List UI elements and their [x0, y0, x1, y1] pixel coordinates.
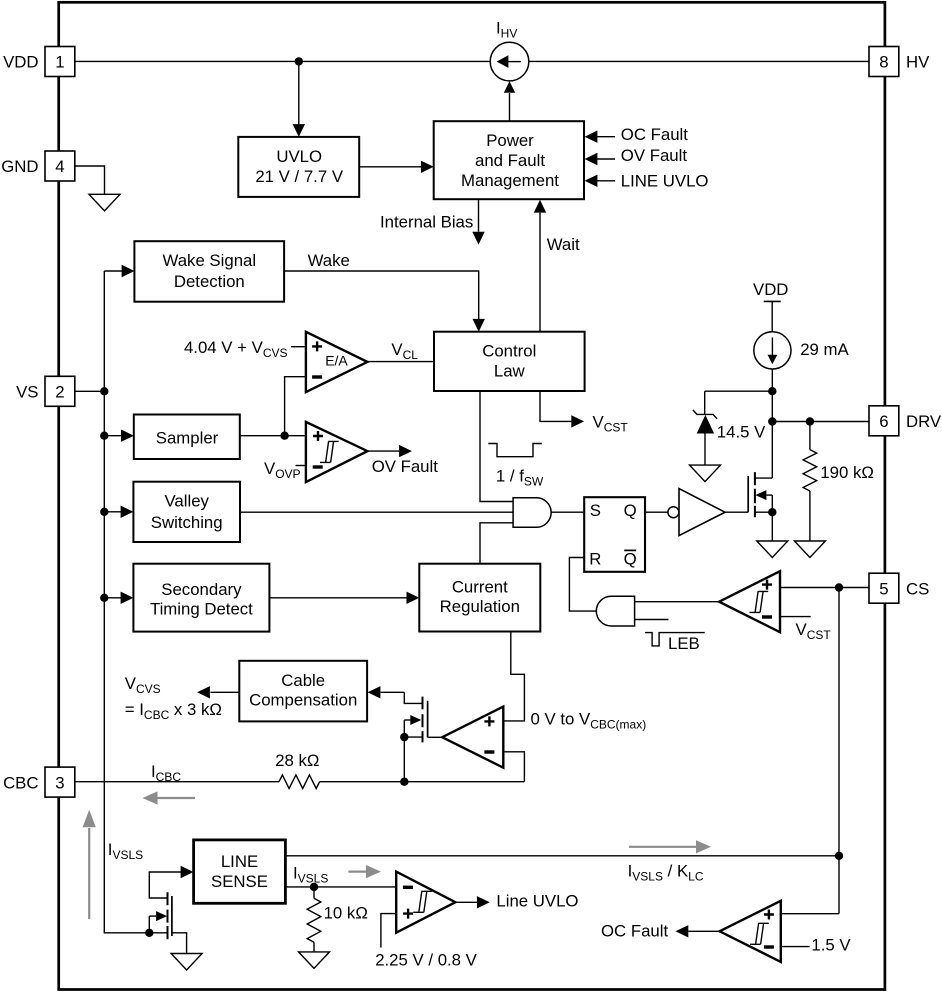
junction 190k branch — [806, 417, 814, 425]
latch U3 SR flip-flop — [584, 497, 645, 572]
wire LINE SENSE bottom output — [285, 886, 396, 888]
wire Sampler output to OVP comparator — [240, 435, 306, 437]
wire VDD rail down to UVLO — [298, 61, 300, 124]
svg-text:and Fault: and Fault — [475, 151, 545, 170]
op-amp U1 E/A — [306, 332, 368, 392]
wire AND gate to latch S input — [551, 511, 584, 513]
wire Q3 gate to ground — [172, 933, 187, 954]
wire Internal Bias output — [478, 199, 480, 232]
AND gate G1 — [513, 498, 551, 528]
wire LINE SENSE top output IVSLS/KLC net — [285, 855, 839, 857]
wire Valley Switching to AND gate — [240, 511, 513, 513]
wire VDD rail to 29 mA source — [771, 301, 773, 332]
wire Power Management to IHV — [509, 93, 511, 121]
wire 2.25 V / 0.8 V reference stub — [381, 914, 396, 948]
wire Q1 source to ground — [771, 495, 773, 541]
wire OC Fault input stub — [585, 131, 615, 143]
svg-text:2: 2 — [55, 383, 64, 402]
junction VS pin / bus — [100, 387, 108, 395]
svg-text:Q: Q — [624, 549, 637, 568]
wire bus to Secondary Timing Detect — [104, 592, 133, 604]
pin 1 VDD — [45, 47, 75, 77]
wire CS comparator output to AND gate — [635, 601, 720, 603]
wire 1.5 V reference stub — [781, 946, 810, 948]
pin 4 GND — [45, 151, 75, 181]
svg-text:Management: Management — [461, 171, 559, 190]
svg-text:Cable: Cable — [281, 671, 325, 690]
svg-text:6: 6 — [879, 412, 888, 431]
comparator U7 line UVLO — [396, 872, 455, 933]
svg-text:190 kΩ: 190 kΩ — [820, 463, 874, 482]
ground symbol at 190k — [794, 541, 825, 558]
svg-text:LINE: LINE — [221, 852, 258, 871]
block Cable Compensation — [239, 661, 367, 722]
wire Q2 gate to amp output — [428, 736, 443, 738]
diode D1 zener 14.5 V — [693, 410, 717, 465]
comparator U8 overcurrent — [720, 901, 781, 962]
wire Q1 drain to DRV node — [771, 422, 773, 479]
AND gate G2 LEB — [596, 596, 634, 626]
svg-text:Wake: Wake — [308, 251, 350, 270]
svg-text:VDD: VDD — [753, 280, 788, 299]
junction Q2 source — [400, 733, 408, 741]
svg-text:VDD: VDD — [3, 53, 38, 72]
block Control Law — [434, 332, 585, 391]
transistor Q3 line sense MOSFET — [149, 866, 193, 939]
svg-text:4.04 V + VCVS: 4.04 V + VCVS — [184, 338, 288, 360]
block Sampler — [134, 415, 240, 460]
junction CBC line / Q2 source — [400, 778, 408, 786]
wire DRV node to zener — [705, 391, 773, 414]
wire AND gate to latch R input — [569, 558, 596, 612]
svg-text:1 / fSW: 1 / fSW — [496, 466, 544, 488]
svg-text:5: 5 — [879, 579, 888, 598]
svg-text:Detection: Detection — [174, 272, 245, 291]
svg-text:OC Fault: OC Fault — [621, 125, 688, 144]
junction 10k branch — [310, 883, 318, 891]
wire Wait from Control Law to Power Management — [539, 213, 541, 332]
wire Line UVLO output — [455, 901, 477, 903]
wire CS node down to line sense net — [838, 588, 840, 914]
current direction arrow IVSLS right — [348, 865, 381, 878]
svg-text:S: S — [590, 501, 601, 520]
wire OVP output OV Fault — [367, 450, 399, 452]
wire Q2 drain to Cable Compensation — [381, 691, 405, 693]
block Secondary Timing Detect — [133, 564, 269, 632]
svg-text:Control: Control — [482, 342, 536, 361]
transistor Q2 cable compensation MOSFET — [404, 692, 427, 781]
svg-text:DRV: DRV — [906, 412, 942, 431]
svg-text:8: 8 — [879, 53, 888, 72]
wire VCST reference stub — [780, 616, 811, 618]
svg-text:VCVS: VCVS — [125, 674, 161, 696]
svg-text:Q: Q — [624, 501, 637, 520]
pin 6 DRV — [869, 406, 899, 436]
svg-text:OV Fault: OV Fault — [621, 146, 688, 165]
resistor R3 10 kOhm — [307, 887, 321, 952]
svg-text:CS: CS — [906, 579, 929, 598]
svg-text:Line UVLO: Line UVLO — [496, 892, 578, 911]
wire IHV current source to HV pin8 — [529, 60, 869, 62]
svg-text:VOVP: VOVP — [264, 459, 301, 481]
wire latch Q output to driver — [645, 511, 668, 513]
wire LINE UVLO input stub — [585, 175, 615, 187]
junction Q1 source — [768, 508, 776, 516]
svg-text:0 V to VCBC(max): 0 V to VCBC(max) — [531, 710, 647, 732]
junction DRV node — [768, 417, 776, 425]
wire UVLO to Power Management — [359, 166, 421, 168]
resistor R1 190 kOhm — [803, 422, 817, 542]
svg-text:1: 1 — [55, 53, 64, 72]
current source IHV — [490, 42, 529, 81]
svg-text:UVLO: UVLO — [276, 147, 322, 166]
comparator U5 current sense — [719, 571, 780, 632]
junction bus / Secondary Timing branch — [100, 594, 108, 602]
svg-text:Wait: Wait — [547, 235, 580, 254]
current direction arrow IVSLS up — [83, 810, 96, 919]
wire Wake to Control Law — [284, 271, 479, 319]
resistor R2 28 kOhm — [279, 775, 320, 789]
svg-text:29 mA: 29 mA — [800, 340, 849, 359]
wire CS pin to comparator — [780, 587, 869, 589]
waveform symbol 1/fSW pulse — [488, 444, 542, 457]
wire LEB stub input — [635, 619, 669, 621]
wire VS vertical bus — [104, 271, 167, 933]
VDD rail tick — [764, 300, 781, 302]
junction bus / Sampler branch — [100, 432, 108, 440]
current direction arrow ICBC — [143, 791, 196, 804]
wire E/A noninverting input stub — [291, 346, 306, 348]
ground symbol at Q3 gate — [171, 954, 202, 971]
ground symbol at Q1 source — [757, 541, 788, 558]
svg-text:ICBC: ICBC — [151, 762, 181, 784]
svg-text:21 V / 7.7 V: 21 V / 7.7 V — [255, 167, 343, 186]
wire GND pin to ground — [75, 166, 105, 194]
svg-text:E/A: E/A — [325, 352, 348, 368]
wire VOVP inverting input stub — [296, 465, 306, 467]
svg-text:HV: HV — [906, 53, 930, 72]
ground symbol at GND pin — [89, 194, 120, 211]
wire IVSLS/KLC node to OC comparator — [781, 913, 839, 915]
transistor Q1 driver MOSFET — [748, 472, 772, 517]
pin 3 CBC — [45, 767, 75, 797]
wire resistor to amp inverting node — [320, 781, 525, 783]
wire OV Fault input stub — [585, 153, 615, 165]
svg-text:28 kΩ: 28 kΩ — [275, 751, 319, 770]
wire amp inverting input to CBC line — [503, 752, 524, 782]
svg-text:VS: VS — [16, 383, 38, 402]
junction zener branch — [768, 387, 776, 395]
comparator U2 OVP — [306, 422, 368, 482]
junction sampler node / E/A feedback — [280, 432, 288, 440]
wire Current Regulation to AND gate bottom input — [480, 523, 513, 564]
svg-text:Valley: Valley — [164, 492, 209, 511]
waveform symbol LEB pulse — [645, 633, 705, 646]
svg-text:R: R — [589, 549, 601, 568]
svg-text:14.5 V: 14.5 V — [717, 422, 766, 441]
svg-text:GND: GND — [1, 157, 38, 176]
current source I2 29 mA — [754, 332, 791, 369]
wire OC Fault output — [688, 930, 719, 932]
wire Current Regulation to comparator input — [503, 632, 524, 721]
ground symbol at zener — [690, 465, 721, 482]
block LINE SENSE — [194, 840, 286, 903]
svg-text:Regulation: Regulation — [440, 597, 520, 616]
svg-text:VCL: VCL — [391, 340, 418, 362]
svg-text:4: 4 — [55, 157, 64, 176]
block Current Regulation — [419, 564, 540, 632]
svg-text:CBC: CBC — [3, 773, 38, 792]
current direction arrow IVSLS/KLC right — [629, 840, 711, 853]
svg-text:IVSLS / KLC: IVSLS / KLC — [628, 862, 704, 884]
pin 5 CS — [869, 573, 899, 603]
svg-text:Law: Law — [494, 361, 526, 380]
svg-text:2.25 V / 0.8 V: 2.25 V / 0.8 V — [375, 950, 477, 969]
junction bus / Valley Switching branch — [100, 508, 108, 516]
wire Control Law to AND gate top input — [480, 391, 513, 502]
op-amp U6 cable compensation — [442, 707, 503, 768]
pin 2 VS — [45, 376, 75, 406]
block Valley Switching — [133, 482, 240, 542]
junction Q3 source / bus — [145, 929, 153, 937]
svg-text:Compensation: Compensation — [249, 691, 357, 710]
svg-text:Switching: Switching — [151, 513, 223, 532]
wire E/A output VCL to Control Law — [367, 361, 434, 363]
svg-text:IVSLS: IVSLS — [293, 863, 328, 885]
wire 29 mA source to DRV node — [771, 369, 773, 422]
svg-text:OV Fault: OV Fault — [372, 457, 439, 476]
junction CS sense node — [835, 583, 843, 591]
wire DRV node to pin 6 — [772, 421, 869, 423]
block Wake Signal Detection — [134, 241, 284, 302]
svg-text:= ICBC x 3 kΩ: = ICBC x 3 kΩ — [125, 700, 222, 722]
svg-text:Internal Bias: Internal Bias — [380, 213, 473, 232]
svg-text:VCST: VCST — [796, 620, 832, 642]
buffer U4 driver — [679, 489, 725, 536]
inverter bubble — [668, 507, 679, 518]
svg-text:IVSLS: IVSLS — [108, 840, 143, 862]
wire buffer to MOSFET gate — [725, 511, 748, 513]
pin 8 HV — [869, 47, 899, 77]
junction VDD rail / UVLO branch — [295, 57, 303, 65]
svg-text:3: 3 — [55, 773, 64, 792]
block UVLO 21 V / 7.7 V — [238, 137, 359, 197]
svg-text:IHV: IHV — [496, 18, 517, 40]
svg-text:LINE UVLO: LINE UVLO — [621, 172, 709, 191]
svg-text:Current: Current — [452, 578, 508, 597]
junction IVSLS/KLC node — [835, 852, 843, 860]
svg-text:10 kΩ: 10 kΩ — [324, 904, 368, 923]
wire bus to Valley Switching — [104, 506, 133, 518]
svg-text:SENSE: SENSE — [211, 872, 268, 891]
wire VDD pin1 to IHV current source — [75, 60, 491, 62]
svg-text:Wake Signal: Wake Signal — [163, 251, 257, 270]
svg-text:Secondary: Secondary — [161, 580, 242, 599]
svg-text:1.5 V: 1.5 V — [811, 936, 851, 955]
wire VS pin to bus — [75, 390, 105, 392]
wire CBC pin to resistor — [75, 781, 279, 783]
wire VCVS output arrow — [211, 691, 240, 693]
wire bus to Wake Signal Detection — [104, 270, 122, 272]
svg-text:Power: Power — [486, 131, 534, 150]
wire bus to Sampler — [104, 430, 134, 442]
svg-text:Sampler: Sampler — [156, 428, 219, 447]
svg-text:Timing Detect: Timing Detect — [150, 599, 253, 618]
block Power and Fault Management — [434, 121, 584, 199]
svg-text:LEB: LEB — [668, 634, 700, 653]
svg-text:VCST: VCST — [593, 413, 629, 435]
ground symbol at 10k — [299, 952, 330, 969]
svg-text:OC Fault: OC Fault — [601, 922, 668, 941]
wire Control Law to VCST output — [540, 391, 571, 421]
wire Secondary Timing Detect to Current Regulation — [269, 597, 407, 599]
wire E/A inverting input from sampler node — [285, 377, 306, 436]
